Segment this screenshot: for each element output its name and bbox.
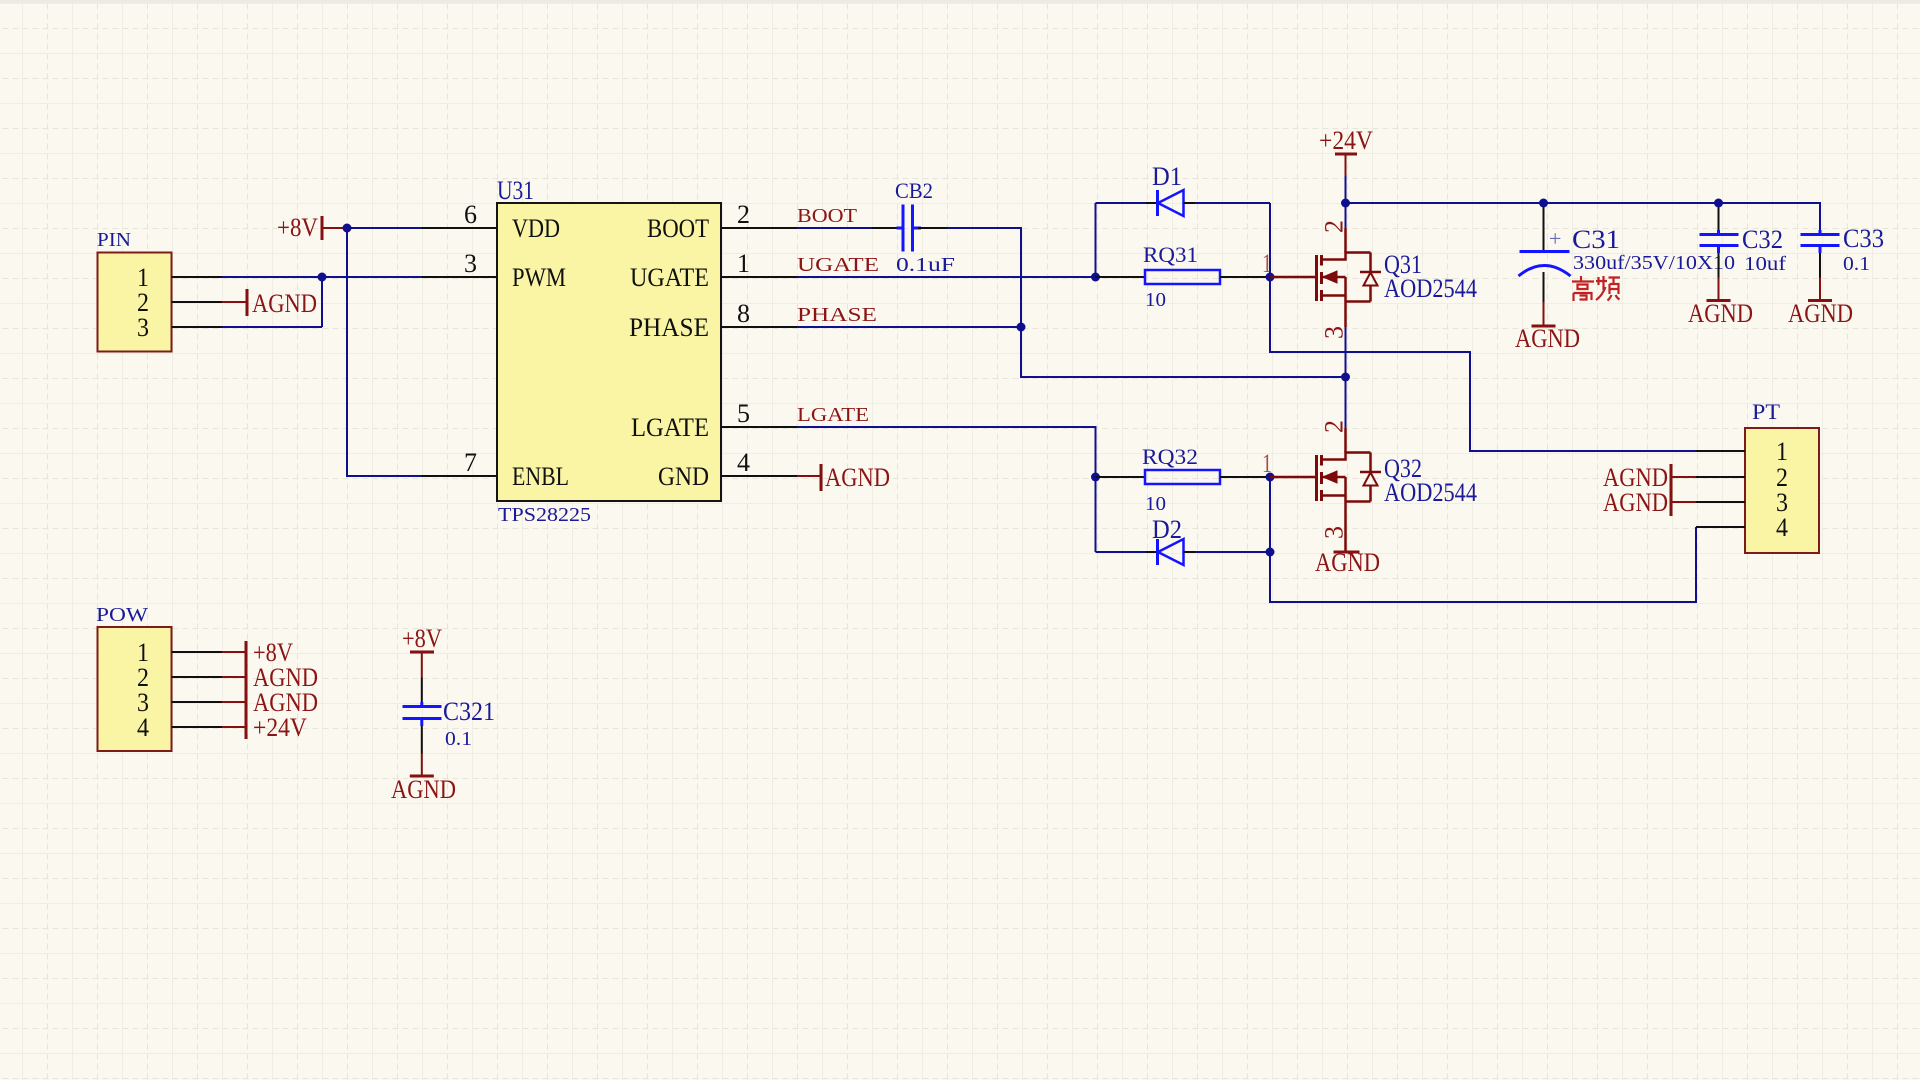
svg-text:C31: C31 — [1572, 225, 1620, 254]
power port AGND on PT pin 3 — [1603, 488, 1696, 517]
connector PT pin 2 stub — [1696, 476, 1745, 478]
Q31 pin 3 — [1344, 302, 1347, 328]
svg-text:0.1: 0.1 — [445, 728, 472, 750]
U31 pin 4 stub (GND) — [721, 475, 797, 477]
transistor Q31 — [1262, 220, 1477, 339]
power port AGND on U31 GND pin — [797, 463, 890, 492]
connector POW pin 2 stub — [172, 676, 223, 678]
node junction at (1345.5,377) — [1341, 373, 1350, 382]
svg-text:+8V: +8V — [402, 624, 442, 653]
svg-text:VDD: VDD — [512, 214, 560, 243]
Q31 gate wire — [1270, 276, 1317, 279]
svg-text:10: 10 — [1145, 289, 1166, 311]
svg-text:AOD2544: AOD2544 — [1384, 478, 1477, 507]
wire CB2 right to PHASE corner — [947, 228, 1346, 377]
svg-text:0.1uF: 0.1uF — [896, 254, 955, 276]
svg-text:330uf/35V/10X10: 330uf/35V/10X10 — [1573, 252, 1735, 274]
power port AGND below C31 — [1515, 302, 1580, 353]
connector PIN body — [98, 253, 172, 352]
connector PIN pin 2 stub — [172, 301, 223, 303]
U31 pin 2 stub (BOOT) — [721, 227, 797, 229]
wire +24V stem — [1345, 176, 1347, 203]
svg-text:3: 3 — [1320, 326, 1349, 339]
svg-text:UGATE: UGATE — [797, 254, 879, 276]
node junction at (1095.5,277) — [1091, 273, 1100, 282]
transistor Q32 — [1262, 420, 1477, 552]
svg-text:RQ32: RQ32 — [1142, 444, 1198, 469]
svg-text:AGND: AGND — [1788, 299, 1853, 328]
U31 pin 5 stub (LGATE) — [721, 426, 797, 428]
Q31 pin 2 — [1344, 228, 1347, 253]
wire PHASE pin to vertical — [797, 326, 1021, 328]
connector PIN pin 3 stub — [172, 326, 223, 328]
svg-text:CB2: CB2 — [895, 178, 933, 203]
Q32 source stub — [1322, 477, 1371, 502]
svg-text:7: 7 — [464, 448, 477, 477]
svg-text:AGND: AGND — [252, 289, 317, 318]
wire +24V rail to bypass caps — [1346, 203, 1821, 230]
svg-text:D1: D1 — [1152, 162, 1182, 191]
connector POW pin 1 stub — [172, 651, 223, 653]
Q32 pin 2 — [1344, 428, 1347, 453]
power port +8V near U31 — [277, 213, 347, 242]
svg-text:+24V: +24V — [1319, 126, 1373, 155]
wire PIN pin1 to PWM — [222, 276, 422, 278]
svg-text:POW: POW — [96, 604, 148, 626]
node junction at (1270,477) — [1266, 473, 1275, 482]
svg-text:10uf: 10uf — [1744, 253, 1786, 275]
wire PHASE node down to Q32 drain — [1345, 377, 1347, 428]
svg-text:PWM: PWM — [512, 263, 566, 292]
Q31 body diode — [1360, 253, 1381, 302]
Q32 gate bar — [1315, 455, 1318, 501]
svg-text:1: 1 — [1262, 249, 1272, 278]
svg-text:3: 3 — [464, 249, 477, 278]
capacitor C32 — [1700, 203, 1787, 278]
svg-text:RQ31: RQ31 — [1143, 242, 1198, 267]
svg-text:3: 3 — [1320, 526, 1349, 539]
svg-text:GND: GND — [658, 462, 709, 491]
svg-text:PT: PT — [1752, 399, 1781, 424]
svg-text:+24V: +24V — [253, 713, 307, 742]
wire UGATE pin to RQ31 — [797, 276, 1096, 278]
svg-text:AGND: AGND — [1688, 299, 1753, 328]
connector PIN pin 1 stub — [172, 276, 223, 278]
svg-text:4: 4 — [737, 448, 750, 477]
svg-text:10: 10 — [1145, 493, 1166, 515]
Q32 body diode — [1360, 453, 1381, 502]
svg-text:BOOT: BOOT — [797, 205, 857, 227]
power port AGND on PIN pin 2 — [222, 289, 317, 318]
svg-text:+: + — [1549, 226, 1561, 251]
svg-text:2: 2 — [1320, 220, 1349, 233]
diode D2 — [1096, 515, 1271, 565]
power port +24V — [1319, 126, 1373, 176]
wire +8V down to ENBL — [347, 228, 422, 476]
svg-text:C321: C321 — [443, 697, 495, 726]
node junction C32 at rail — [1714, 199, 1723, 208]
svg-text:AGND: AGND — [391, 775, 456, 804]
connector PT body — [1745, 428, 1819, 553]
svg-text:1: 1 — [1776, 437, 1788, 466]
capacitor C321 — [403, 678, 496, 754]
Q32 drain stub — [1322, 453, 1371, 460]
wire LGATE down to RQ32/D2 — [797, 427, 1096, 552]
label 高频 (red) — [1572, 276, 1620, 301]
power port AGND below C32 — [1688, 278, 1753, 329]
wire BOOT pin to CB2 — [797, 227, 872, 229]
resistor RQ32 — [1096, 444, 1271, 515]
U31 pin 7 stub (ENBL) — [422, 475, 497, 477]
power port +8V above C321 — [402, 624, 442, 678]
svg-text:2: 2 — [737, 200, 750, 229]
diode D1 — [1096, 162, 1271, 277]
node junction at (1270,552) — [1266, 548, 1275, 557]
svg-text:4: 4 — [137, 713, 149, 742]
svg-text:1: 1 — [737, 249, 750, 278]
connector PT pin 3 stub — [1696, 501, 1745, 503]
node junction PHASE at (1021,327) — [1017, 323, 1026, 332]
svg-text:4: 4 — [1776, 513, 1788, 542]
capacitor C31 electrolytic — [1519, 203, 1736, 302]
svg-text:AOD2544: AOD2544 — [1384, 274, 1477, 303]
node junction at (322,277) — [318, 273, 327, 282]
U31 pin 3 stub (PWM) — [422, 276, 497, 278]
connector POW pin 4 stub — [172, 726, 223, 728]
power port AGND below C33 — [1788, 278, 1853, 329]
wire Q31 drain from rail — [1345, 203, 1347, 228]
wire Q32 gate node vertical and run to PT pin4 — [1270, 477, 1696, 602]
Q31 drain stub — [1322, 253, 1371, 260]
Q32 channel bar segments — [1320, 455, 1323, 501]
power port AGND on PT pin 2 — [1603, 463, 1696, 492]
Q31 body stub with arrow — [1322, 276, 1346, 279]
svg-text:AGND: AGND — [1315, 548, 1380, 577]
Q31 channel bar segments — [1320, 255, 1323, 301]
power port AGND below C321 — [391, 754, 456, 805]
node junction at (1095.5,477) — [1091, 473, 1100, 482]
svg-text:6: 6 — [464, 200, 477, 229]
node junction at (1270,277) — [1266, 273, 1275, 282]
svg-text:LGATE: LGATE — [797, 404, 869, 426]
svg-text:2: 2 — [1320, 420, 1349, 433]
svg-text:TPS28225: TPS28225 — [498, 504, 591, 526]
svg-text:PHASE: PHASE — [629, 313, 709, 342]
Q32 body stub with arrow — [1322, 476, 1346, 479]
node junction at (1345.5,203) — [1341, 199, 1350, 208]
U31 body — [497, 203, 721, 501]
node junction C31 at rail — [1539, 199, 1548, 208]
shared power bar at POW — [245, 641, 248, 739]
svg-text:BOOT: BOOT — [647, 214, 709, 243]
svg-text:AGND: AGND — [825, 463, 890, 492]
wire PIN pin3 horizontal — [222, 326, 322, 328]
Q32 gate wire — [1270, 476, 1317, 479]
svg-text:0.1: 0.1 — [1843, 253, 1870, 275]
connector PT pin 4 stub — [1696, 526, 1745, 528]
wire vertical pin3 up to pin1 net — [321, 277, 323, 327]
svg-text:U31: U31 — [497, 176, 534, 205]
svg-text:AGND: AGND — [1515, 324, 1580, 353]
connector POW pin 3 stub — [172, 701, 223, 703]
Q32 pin 3 to AGND — [1344, 502, 1347, 553]
power wires POW to labels — [222, 652, 246, 727]
U31 pin 6 stub (VDD) — [422, 227, 497, 229]
wire Q31 source to PHASE node — [1345, 327, 1347, 377]
svg-text:PHASE: PHASE — [797, 304, 877, 326]
svg-text:PIN: PIN — [97, 229, 131, 251]
svg-text:5: 5 — [737, 399, 750, 428]
connector PT pin 1 stub — [1696, 450, 1745, 452]
svg-text:8: 8 — [737, 299, 750, 328]
svg-text:UGATE: UGATE — [630, 263, 709, 292]
wire D1 corner down through gate node to lower run — [1270, 203, 1696, 451]
svg-text:LGATE: LGATE — [631, 413, 709, 442]
connector POW body — [98, 627, 172, 751]
Q31 source stub — [1322, 277, 1371, 302]
capacitor CB2 — [872, 178, 955, 276]
capacitor C33 — [1801, 224, 1885, 278]
resistor RQ31 — [1096, 242, 1271, 311]
node junction at (347,228) — [343, 224, 352, 233]
wire +8V to VDD — [347, 227, 422, 229]
svg-text:ENBL: ENBL — [512, 462, 569, 491]
Q31 gate bar — [1315, 255, 1318, 301]
svg-text:C32: C32 — [1742, 225, 1783, 254]
U31 pin 1 stub (UGATE) — [721, 276, 797, 278]
svg-text:+8V: +8V — [277, 213, 318, 242]
power port AGND at Q32 source — [1315, 548, 1380, 577]
svg-text:3: 3 — [137, 313, 149, 342]
svg-text:AGND: AGND — [1603, 488, 1668, 517]
U31 pin 8 stub (PHASE) — [721, 326, 797, 328]
svg-text:1: 1 — [1262, 449, 1272, 478]
svg-text:C33: C33 — [1843, 224, 1884, 253]
